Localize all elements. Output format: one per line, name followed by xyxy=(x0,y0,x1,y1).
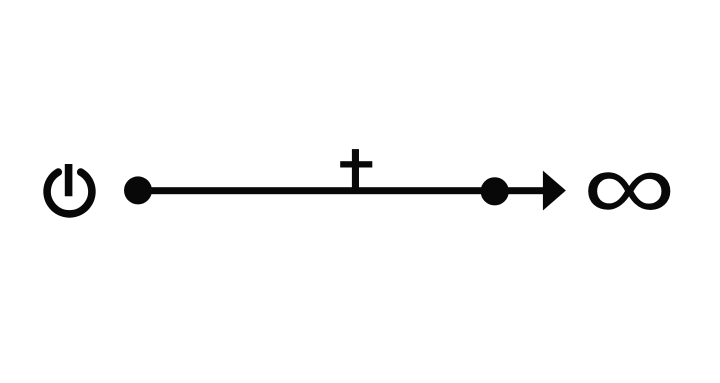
wire: timeline xyxy=(138,187,544,194)
cross (death marker) xyxy=(340,149,372,192)
power symbol (start of life) xyxy=(47,164,92,214)
node: birth dot xyxy=(124,176,152,204)
infinity symbol (eternity) xyxy=(588,172,670,210)
arrowhead xyxy=(543,171,566,211)
node: death dot xyxy=(481,177,509,205)
